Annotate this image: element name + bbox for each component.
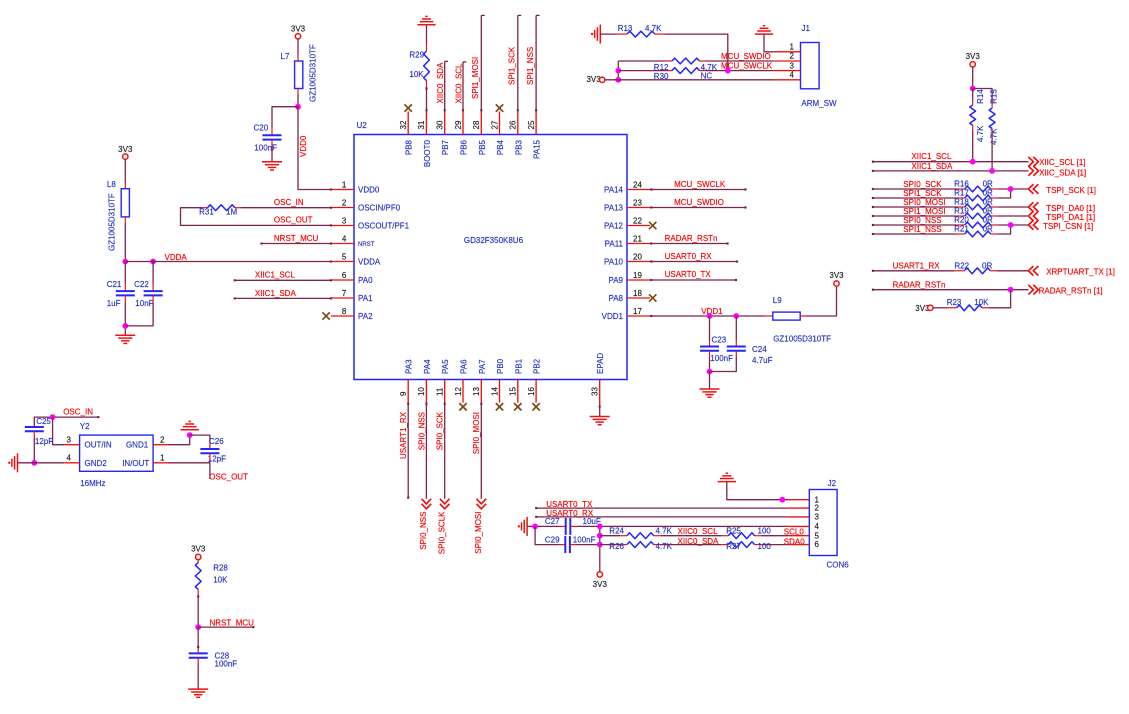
- svg-text:16MHz: 16MHz: [80, 479, 105, 488]
- connector J2 CON6: [809, 490, 837, 556]
- U2 pin 22 PA12: [627, 225, 650, 227]
- svg-text:R21: R21: [954, 225, 969, 234]
- svg-text:PA6: PA6: [460, 359, 469, 374]
- resistor R17 0R (SPI1_SCK): [873, 197, 956, 199]
- U2 pin 14 PB0: [499, 380, 501, 403]
- U2 pin 33 EPAD: [599, 380, 601, 406]
- offpage port SPI0_SCLK (down): [440, 499, 450, 509]
- svg-text:12pF: 12pF: [35, 437, 53, 446]
- node VDD0 junction: [295, 104, 301, 110]
- svg-text:GZ1005D310TF: GZ1005D310TF: [107, 193, 116, 251]
- power 3V3 (J2): [597, 572, 602, 577]
- svg-text:OUT/IN: OUT/IN: [85, 441, 112, 450]
- svg-text:19: 19: [633, 271, 642, 280]
- svg-text:10K: 10K: [213, 576, 228, 585]
- J1 pin 4 stub: [773, 79, 800, 81]
- svg-text:0R: 0R: [983, 198, 993, 207]
- resistor R12: [672, 58, 700, 64]
- svg-text:10K: 10K: [974, 298, 989, 307]
- resistor R16 0R (SPI0_SCK): [873, 188, 956, 190]
- svg-text:R22: R22: [954, 261, 969, 270]
- J1 pin 3 stub: [773, 70, 800, 72]
- wire U2 pin 28 SPI1_MOSI: [480, 15, 482, 111]
- wire C21 to ground: [124, 295, 126, 302]
- wire XIIC1_SCL to port: [873, 161, 1029, 163]
- U2 pin 9 PA3: [407, 380, 409, 403]
- svg-text:RADAR_RSTn: RADAR_RSTn: [893, 280, 946, 289]
- svg-text:12pF: 12pF: [208, 454, 226, 463]
- svg-text:SPI0_SCLK: SPI0_SCLK: [438, 511, 447, 554]
- svg-text:USART0_RX: USART0_RX: [665, 252, 713, 261]
- node 3V3/row5 junction: [597, 533, 603, 539]
- svg-text:23: 23: [633, 198, 642, 207]
- svg-text:5: 5: [815, 531, 820, 540]
- offpage port TSPI_SCK: [1028, 184, 1038, 194]
- svg-text:R15: R15: [989, 89, 998, 104]
- svg-text:1M: 1M: [226, 207, 237, 216]
- resistor R14: [972, 89, 974, 100]
- svg-text:L7: L7: [281, 52, 290, 61]
- svg-text:PB3: PB3: [514, 139, 523, 155]
- resistor R26 4.7K: [600, 544, 620, 546]
- wire EPAD to ground: [599, 405, 601, 416]
- svg-text:NRST_MCU: NRST_MCU: [274, 234, 319, 243]
- capacitor C23: [700, 346, 719, 348]
- U2 pin 30 PB7: [444, 111, 446, 134]
- node VDDA junction 2: [150, 259, 156, 265]
- wire R12/R30 left vertical to 3V3: [617, 61, 619, 80]
- svg-text:C29: C29: [545, 535, 560, 544]
- svg-text:100nF: 100nF: [215, 659, 238, 668]
- wire R19 to TSPI_DA1 port: [997, 215, 1028, 217]
- svg-text:XIIC1_SCL: XIIC1_SCL: [911, 152, 952, 161]
- wire J2 pin 1 to ground: [727, 482, 788, 500]
- wire C26 to OSC_OUT row: [209, 453, 211, 459]
- J1 pin 2 stub: [773, 60, 800, 62]
- U2 pin 26 PB3: [517, 111, 519, 134]
- wire C23 to ground junction: [709, 351, 711, 357]
- wire junction to ground: [709, 372, 711, 390]
- svg-text:4.7K: 4.7K: [656, 526, 673, 535]
- svg-text:PB4: PB4: [496, 139, 505, 155]
- svg-text:PA15: PA15: [533, 139, 542, 159]
- ground (C28): [188, 688, 208, 690]
- offpage port TSPI_DA0: [1028, 202, 1038, 212]
- U2 pin 17 VDD1: [627, 315, 650, 317]
- svg-text:30: 30: [436, 120, 445, 129]
- svg-text:3V3: 3V3: [966, 52, 981, 61]
- svg-text:USART0_TX: USART0_TX: [665, 270, 712, 279]
- svg-text:TSPI_DA1 [1]: TSPI_DA1 [1]: [1046, 213, 1095, 222]
- svg-text:U2: U2: [357, 121, 368, 130]
- svg-text:100: 100: [758, 542, 772, 551]
- wire J1 pin1 to ground: [764, 34, 773, 52]
- ground (Y2 GND2): [17, 453, 19, 472]
- svg-text:28: 28: [472, 120, 481, 129]
- svg-text:24: 24: [633, 180, 642, 189]
- wire 3V3 to L8: [124, 159, 126, 183]
- svg-text:PB0: PB0: [496, 358, 505, 374]
- svg-text:PA9: PA9: [608, 276, 623, 285]
- svg-text:SPI0_NSS: SPI0_NSS: [419, 512, 428, 550]
- U2 pin 31 BOOT0: [425, 111, 427, 134]
- wire XIIC1_SDA to U2 pin 7: [235, 297, 331, 299]
- Y2 pin 4 stub: [64, 462, 79, 464]
- node 3V3/row4 junction: [597, 524, 603, 530]
- J2 pin 6 stub: [788, 544, 809, 546]
- wire VDD0 branch to C20: [272, 107, 298, 128]
- svg-text:21: 21: [633, 234, 642, 243]
- node R14/XIIC1_SCL junction: [970, 159, 976, 165]
- capacitor C24: [727, 346, 746, 348]
- node C21/C22 ground junction: [122, 323, 128, 329]
- U2 pin 3 OSCOUT/PF1: [331, 225, 354, 227]
- U2 pin 32 PB8: [407, 111, 409, 134]
- wire U2 pin 25 SPI1_NSS: [535, 15, 537, 111]
- connector J1 ARM_SW: [801, 43, 820, 89]
- svg-text:32: 32: [399, 120, 408, 129]
- svg-text:OSC_IN: OSC_IN: [274, 198, 304, 207]
- wire OSC_IN to U2 pin 2: [241, 207, 331, 209]
- wire USART0_RX from U2 pin 20: [650, 261, 737, 263]
- svg-text:PB7: PB7: [441, 139, 450, 155]
- svg-text:PB2: PB2: [533, 358, 542, 374]
- svg-text:11: 11: [436, 387, 445, 396]
- svg-text:4.7K: 4.7K: [645, 24, 662, 33]
- svg-text:27: 27: [490, 120, 499, 129]
- svg-text:3: 3: [67, 435, 72, 444]
- U2 pin 28 PB5: [480, 111, 482, 134]
- node R30 left junction: [615, 68, 621, 74]
- wire SPI0_SCK from U2 pin 11: [444, 403, 446, 499]
- svg-text:4: 4: [789, 71, 794, 80]
- wire R15 to XIIC1_SDA: [991, 134, 993, 171]
- J2 pin 1 stub: [788, 499, 809, 501]
- ground (C23/C24): [700, 388, 720, 390]
- svg-text:TSPI_SCK [1]: TSPI_SCK [1]: [1046, 186, 1096, 195]
- U2 pin 23 PA13: [627, 207, 650, 209]
- IC U2 GD32F350K8U6 body: [354, 135, 627, 380]
- Y2 pin 1 stub: [153, 462, 168, 464]
- svg-text:RADAR_RSTn: RADAR_RSTn: [665, 234, 718, 243]
- U2 pin 6 PA0: [331, 279, 354, 281]
- svg-text:ARM_SW: ARM_SW: [801, 99, 837, 108]
- svg-text:R27: R27: [726, 542, 741, 551]
- svg-text:2: 2: [160, 435, 165, 444]
- U2 pin 10 PA4: [425, 380, 427, 403]
- wire NRST_MCU label: [198, 626, 253, 628]
- wire OSC_IN to Y2 pin 3: [53, 417, 65, 445]
- no-connect U2 pin 22: [649, 222, 656, 229]
- wire Y2 pin 2 to ground: [169, 435, 190, 445]
- resistor R31: [202, 207, 208, 209]
- svg-text:PB1: PB1: [514, 358, 523, 374]
- resistor R21 0R (SPI1_NSS): [873, 233, 956, 235]
- svg-text:0R: 0R: [983, 189, 993, 198]
- svg-text:100nF: 100nF: [710, 354, 733, 363]
- svg-text:XIIC0_SCL: XIIC0_SCL: [454, 63, 463, 104]
- svg-text:5: 5: [342, 253, 347, 262]
- wire SPI0_MOSI from U2 pin 13: [480, 403, 482, 499]
- wire R23 to RADAR_RSTn: [989, 290, 1011, 308]
- svg-text:XRPTUART_TX [1]: XRPTUART_TX [1]: [1046, 267, 1115, 276]
- svg-text:GZ1005D310TF: GZ1005D310TF: [773, 335, 831, 344]
- wire RADAR_RSTn from U2 pin 21: [650, 243, 728, 245]
- svg-text:2: 2: [815, 504, 820, 513]
- no-connect U2 pin 8: [322, 312, 329, 319]
- svg-text:R29: R29: [409, 50, 424, 59]
- svg-text:C20: C20: [254, 124, 269, 133]
- wire R30 left lead: [618, 70, 665, 72]
- wire USART0_TX from U2 pin 19: [650, 279, 736, 281]
- U2 pin 8 PA2: [331, 315, 354, 317]
- svg-text:PA3: PA3: [405, 359, 414, 374]
- resistor R19 0R (SPI1_MOSI): [873, 215, 956, 217]
- svg-text:15: 15: [509, 387, 518, 396]
- svg-text:VDD0: VDD0: [358, 185, 380, 194]
- node VDD1 junction C23: [707, 313, 713, 319]
- svg-text:4.7K: 4.7K: [989, 128, 998, 145]
- svg-text:VDD1: VDD1: [701, 307, 723, 316]
- wire NRST node to C28: [197, 627, 199, 648]
- wire R12 to J1 pin 2: [706, 60, 773, 62]
- offpage port SPI0_NSS (down): [422, 499, 432, 509]
- svg-text:4: 4: [342, 235, 347, 244]
- svg-text:L9: L9: [773, 296, 782, 305]
- wire VDD1 from U2 pin 17: [650, 315, 764, 317]
- wire R22 to XRPTUART_TX port: [997, 270, 1029, 272]
- U2 pin 7 PA1: [331, 297, 354, 299]
- svg-text:C22: C22: [134, 280, 149, 289]
- svg-text:29: 29: [454, 120, 463, 129]
- svg-text:SPI1_MOSI: SPI1_MOSI: [471, 57, 480, 99]
- U2 pin 15 PB1: [517, 380, 519, 403]
- Y2 pin 3 stub: [64, 444, 79, 446]
- wire U2 pin 29 XIIC0_SCL: [462, 62, 464, 112]
- ground (EPAD): [590, 416, 610, 418]
- wire ground to R29: [426, 25, 428, 45]
- wire R25 to J2 pin 5: [761, 535, 788, 537]
- node TSPI_CSN merge: [1008, 222, 1014, 228]
- wire R30 to J1 pin 3: [706, 70, 773, 72]
- svg-text:OSC_OUT: OSC_OUT: [209, 473, 248, 482]
- svg-text:R20: R20: [954, 216, 969, 225]
- svg-text:MCU_SWDIO: MCU_SWDIO: [721, 52, 771, 61]
- svg-text:BOOT0: BOOT0: [423, 139, 432, 167]
- wire C20 to ground: [271, 140, 273, 146]
- wire L9 to 3V3: [806, 286, 837, 316]
- svg-text:Y2: Y2: [80, 422, 90, 431]
- J2 pin 3 stub: [788, 516, 809, 518]
- node C25 ground junction: [31, 460, 37, 466]
- svg-text:NRST_MCU: NRST_MCU: [210, 618, 255, 627]
- svg-text:CON6: CON6: [827, 560, 850, 569]
- svg-text:26: 26: [509, 120, 518, 129]
- capacitor C28: [189, 652, 208, 654]
- wire C24 to ground junction: [735, 351, 737, 357]
- Y2 pin 2 stub: [153, 444, 168, 446]
- svg-text:USART1_RX: USART1_RX: [399, 411, 408, 459]
- node VDD1 junction C24: [733, 313, 739, 319]
- U2 pin 27 PB4: [499, 111, 501, 134]
- svg-text:3: 3: [342, 217, 347, 226]
- svg-text:VDDA: VDDA: [165, 253, 188, 262]
- wire R14 to XIIC1_SCL: [972, 131, 974, 162]
- U2 pin 2 OSCIN/PF0: [331, 207, 354, 209]
- svg-text:2: 2: [789, 52, 794, 61]
- wire RADAR_RSTn to port: [873, 289, 1029, 291]
- wire MCU_SWDIO to J1 pin 2: [618, 60, 665, 62]
- svg-text:MCU_SWCLK: MCU_SWCLK: [674, 180, 726, 189]
- svg-text:SPI0_SCK: SPI0_SCK: [903, 180, 942, 189]
- svg-text:GZ1005D310TF: GZ1005D310TF: [308, 44, 317, 102]
- node NRST_MCU junction: [195, 624, 201, 630]
- svg-text:C27: C27: [545, 517, 560, 526]
- wire VDD0 to U2 pin 1: [298, 107, 331, 190]
- resistor R18 0R (SPI0_MOSI): [873, 206, 956, 208]
- wire OSC_OUT label stub: [209, 463, 211, 479]
- svg-text:EPAD: EPAD: [596, 353, 605, 374]
- offpage port XIIC_SDA: [1028, 166, 1038, 176]
- svg-text:XIIC_SDA [1]: XIIC_SDA [1]: [1039, 169, 1086, 178]
- svg-text:MCU_SWDIO: MCU_SWDIO: [674, 198, 724, 207]
- ground (C27/C29): [526, 517, 528, 536]
- svg-text:C24: C24: [752, 345, 767, 354]
- node GND1/C26 junction: [187, 432, 193, 438]
- J1 pin 1 stub: [773, 51, 800, 53]
- svg-text:R12: R12: [654, 63, 669, 72]
- svg-text:USART0_TX: USART0_TX: [546, 500, 593, 509]
- ground (Y2 GND1): [181, 429, 199, 431]
- svg-text:C23: C23: [712, 336, 727, 345]
- wire OSC_IN (crystal): [34, 417, 98, 427]
- wire U2 pin 30 XIIC0_SDA: [444, 61, 446, 111]
- wire C28 to ground: [197, 658, 199, 664]
- wire VDDA to C22: [152, 262, 154, 284]
- svg-text:XIIC0_SCL: XIIC0_SCL: [678, 527, 719, 536]
- svg-text:PA14: PA14: [604, 185, 624, 194]
- wire R18 to TSPI_DA0 port: [997, 206, 1028, 208]
- svg-text:VDD0: VDD0: [299, 135, 308, 157]
- svg-text:GND1: GND1: [126, 441, 149, 450]
- svg-text:3V3: 3V3: [291, 25, 306, 34]
- svg-text:1: 1: [160, 453, 165, 462]
- U2 pin 5 VDDA: [331, 261, 354, 263]
- svg-text:XIIC_SCL [1]: XIIC_SCL [1]: [1039, 158, 1085, 167]
- node R13 to SWCLK junction: [725, 68, 731, 74]
- node J2 pin 1 dot: [779, 497, 785, 503]
- svg-text:6: 6: [342, 271, 347, 280]
- svg-text:J2: J2: [828, 479, 837, 488]
- svg-text:OSC_OUT: OSC_OUT: [274, 216, 313, 225]
- svg-text:C26: C26: [209, 437, 224, 446]
- svg-text:6: 6: [815, 540, 820, 549]
- U2 pin 1 VDD0: [331, 189, 354, 191]
- svg-text:SPI0_NSS: SPI0_NSS: [903, 216, 941, 225]
- svg-text:PA10: PA10: [604, 257, 624, 266]
- svg-text:SPI0_MOSI: SPI0_MOSI: [903, 198, 945, 207]
- node TSPI_SCK merge: [1008, 186, 1014, 192]
- offpage port XRPTUART_TX: [1028, 266, 1038, 276]
- svg-text:XIIC1_SCL: XIIC1_SCL: [255, 271, 296, 280]
- U2 pin 12 PA6: [462, 380, 464, 403]
- node R14/R15 junction: [970, 86, 976, 92]
- wire ground to Y2 pin 4: [18, 462, 65, 464]
- wire R24 to R25: [660, 535, 721, 537]
- svg-text:R17: R17: [954, 189, 969, 198]
- svg-text:R18: R18: [954, 198, 969, 207]
- wire USART0_RX to J2 pin 3: [536, 516, 788, 518]
- resistor R23 10K: [933, 307, 948, 309]
- wire C22 to ground junction: [152, 295, 154, 302]
- wire L8 to VDDA node: [124, 217, 126, 223]
- crystal Y2 16MHz: [80, 435, 154, 471]
- svg-text:GND2: GND2: [85, 459, 108, 468]
- svg-text:22: 22: [633, 216, 642, 225]
- wire MCU_SWDIO from U2 pin 23: [650, 207, 745, 209]
- wire 3V3 to L7: [297, 39, 299, 55]
- svg-text:OSCIN/PF0: OSCIN/PF0: [358, 203, 401, 212]
- svg-text:PA0: PA0: [358, 276, 373, 285]
- svg-text:R13: R13: [618, 24, 633, 33]
- svg-text:0R: 0R: [983, 207, 993, 216]
- svg-text:13: 13: [472, 387, 481, 396]
- svg-text:PA8: PA8: [608, 294, 623, 303]
- svg-text:100: 100: [758, 526, 772, 535]
- capacitor C26: [200, 448, 219, 450]
- svg-text:3: 3: [815, 513, 820, 522]
- svg-text:1: 1: [342, 181, 347, 190]
- offpage port XIIC_SCL: [1028, 157, 1038, 167]
- svg-text:0R: 0R: [983, 216, 993, 225]
- ground (R13): [599, 25, 601, 44]
- resistor R24 4.7K: [600, 535, 620, 537]
- U2 pin 19 PA9: [627, 279, 650, 281]
- wire VDD1 to C24: [735, 316, 737, 341]
- resistor R20 0R (SPI0_NSS): [873, 224, 956, 226]
- svg-text:USART1_RX: USART1_RX: [893, 262, 941, 271]
- wire ground to C27: [527, 525, 559, 527]
- node C23/C24 ground junction: [707, 369, 713, 375]
- svg-text:4.7K: 4.7K: [976, 125, 985, 142]
- svg-text:PB6: PB6: [460, 139, 469, 155]
- svg-text:R24: R24: [609, 526, 624, 535]
- svg-text:SPI0_MOSI: SPI0_MOSI: [474, 511, 483, 553]
- svg-text:R28: R28: [213, 563, 228, 572]
- svg-text:0R: 0R: [983, 225, 993, 234]
- svg-text:PA2: PA2: [358, 312, 373, 321]
- offpage port RADAR_RSTn: [1028, 285, 1038, 295]
- svg-text:SPI1_SCK: SPI1_SCK: [508, 46, 517, 85]
- node 3V3 junction: [615, 77, 621, 83]
- no-connect U2 pin 12: [459, 403, 466, 410]
- wire C29 to 3V3 rail: [577, 544, 600, 546]
- wire R21 merge up: [997, 225, 1010, 234]
- svg-text:R26: R26: [609, 542, 624, 551]
- ground (C21/C22): [115, 334, 135, 336]
- U2 pin 21 PA11: [627, 243, 650, 245]
- capacitor C27: [559, 525, 566, 527]
- svg-text:8: 8: [342, 307, 347, 316]
- wire R28 to NRST node: [197, 595, 199, 627]
- svg-text:SPI1_NSS: SPI1_NSS: [903, 225, 941, 234]
- no-connect U2 pin 18: [649, 294, 656, 301]
- ground (BOOT0 pull-down R29): [417, 24, 435, 26]
- svg-text:3V3: 3V3: [829, 271, 844, 280]
- svg-text:17: 17: [633, 307, 642, 316]
- wire USART1_RX to R22: [873, 270, 955, 272]
- wire R27 to J2 pin 6: [761, 544, 788, 546]
